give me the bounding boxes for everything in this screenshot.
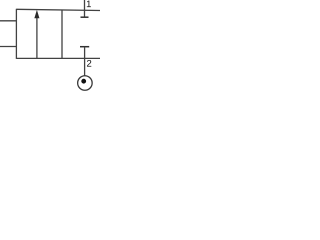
terminal 2 vertical lead xyxy=(84,47,86,76)
connector center dot xyxy=(81,79,86,84)
label terminal 2 xyxy=(87,60,91,67)
connector circle xyxy=(78,76,93,91)
wire top bus from component to right edge xyxy=(16,9,100,10)
wire bottom bus from component to right edge xyxy=(16,57,100,59)
arrow shaft (flow direction) xyxy=(36,17,38,58)
terminal 1 vertical lead xyxy=(84,0,86,17)
arrowhead of flow arrow xyxy=(34,10,39,18)
wire stub lower left xyxy=(0,46,16,48)
label terminal 1 xyxy=(87,1,91,8)
terminal 1 end bar xyxy=(81,16,89,18)
component box left edge xyxy=(15,9,17,59)
terminal 2 end bar xyxy=(80,46,89,48)
component box right edge xyxy=(61,10,63,59)
wire stub upper left xyxy=(0,20,16,22)
